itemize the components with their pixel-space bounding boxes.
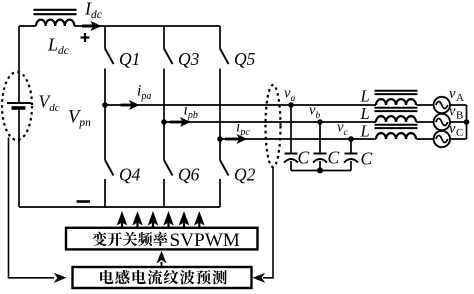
wire top rail <box>19 25 220 27</box>
label 电感电流纹波预测 <box>100 270 227 285</box>
label 变开关频率SVPWM <box>92 230 239 251</box>
svg-text:SVPWM: SVPWM <box>170 230 240 251</box>
wire vb to capacitor <box>319 122 321 153</box>
node right rail (phase b junction) <box>464 119 470 125</box>
svg-text:C: C <box>298 148 310 168</box>
wire source to right rail (phase b) <box>450 121 467 123</box>
svg-text:Q3: Q3 <box>178 49 200 69</box>
svg-text:v: v <box>449 104 456 120</box>
wire capacitor neutral rail <box>291 170 351 172</box>
svg-text:Q6: Q6 <box>178 165 200 185</box>
wire phase b <box>164 121 434 123</box>
node phase b at leg <box>161 119 167 125</box>
capacitor C (a phase) <box>284 154 298 171</box>
node phase a at leg <box>102 102 108 108</box>
current arrow ipb <box>170 117 191 127</box>
current arrow Idc <box>82 21 102 31</box>
capacitor C (c phase) <box>344 154 358 171</box>
ac source vB <box>434 114 450 130</box>
svg-text:v: v <box>449 86 456 102</box>
capacitor C (b phase) <box>313 154 327 171</box>
switch Q4 <box>105 105 114 207</box>
switch Q2 <box>220 139 229 207</box>
wire source to right rail (phase c) <box>450 138 467 140</box>
svg-text:L: L <box>360 104 370 123</box>
svg-text:C: C <box>361 149 373 169</box>
svg-text:L: L <box>360 122 370 141</box>
node capacitor neutral <box>317 168 323 174</box>
feedback wire from dc source sensor to prediction box <box>9 138 67 283</box>
dc source sensor ellipse <box>2 72 32 140</box>
node phase c at leg <box>217 136 223 142</box>
svg-text:Q2: Q2 <box>234 165 256 185</box>
svg-text:L: L <box>360 87 370 106</box>
svg-text:v: v <box>449 121 456 137</box>
ac source vA <box>434 97 450 113</box>
svg-text:A: A <box>456 92 464 104</box>
wire va to capacitor <box>290 105 292 153</box>
current arrow ipc <box>225 134 247 144</box>
box inductor current ripple prediction <box>73 267 252 288</box>
wire source to right rail (phase a) <box>450 104 467 106</box>
svg-text:C: C <box>456 127 463 139</box>
switch Q5 <box>220 26 229 139</box>
switch Q3 <box>164 26 173 122</box>
inductor L (phase a) <box>375 91 418 105</box>
switch Q1 <box>105 26 114 105</box>
wire phase a <box>105 104 434 106</box>
wire left rail <box>18 26 20 207</box>
svg-text:B: B <box>456 110 463 122</box>
minus sign <box>77 200 91 203</box>
svg-text:Q5: Q5 <box>234 49 256 69</box>
inductor L (phase c) <box>375 125 418 139</box>
svg-text:Q4: Q4 <box>119 165 141 185</box>
plus sign <box>81 33 90 42</box>
dc source Vdc battery <box>7 103 31 108</box>
gate signal arrows from SVPWM to switches <box>117 211 205 228</box>
wire vc to capacitor <box>350 139 352 153</box>
svg-text:Q1: Q1 <box>119 49 140 69</box>
feedback wire from output sensor to prediction box <box>253 168 274 283</box>
switch Q6 <box>164 122 173 207</box>
node vb <box>317 119 323 125</box>
svg-text:C: C <box>328 148 340 168</box>
wire right rail <box>466 105 468 139</box>
current arrow ipa <box>121 100 140 110</box>
arrow prediction box to SVPWM box <box>156 251 166 266</box>
box variable switching frequency SVPWM <box>66 228 258 250</box>
inductor L (phase b) <box>375 108 418 122</box>
wire phase c <box>220 138 434 140</box>
inductor Ldc <box>34 10 77 26</box>
ac source vC <box>434 131 450 147</box>
output current sensor ellipse <box>266 85 281 167</box>
node va <box>288 102 294 108</box>
wire bottom rail <box>19 206 220 208</box>
node vc <box>348 136 354 142</box>
